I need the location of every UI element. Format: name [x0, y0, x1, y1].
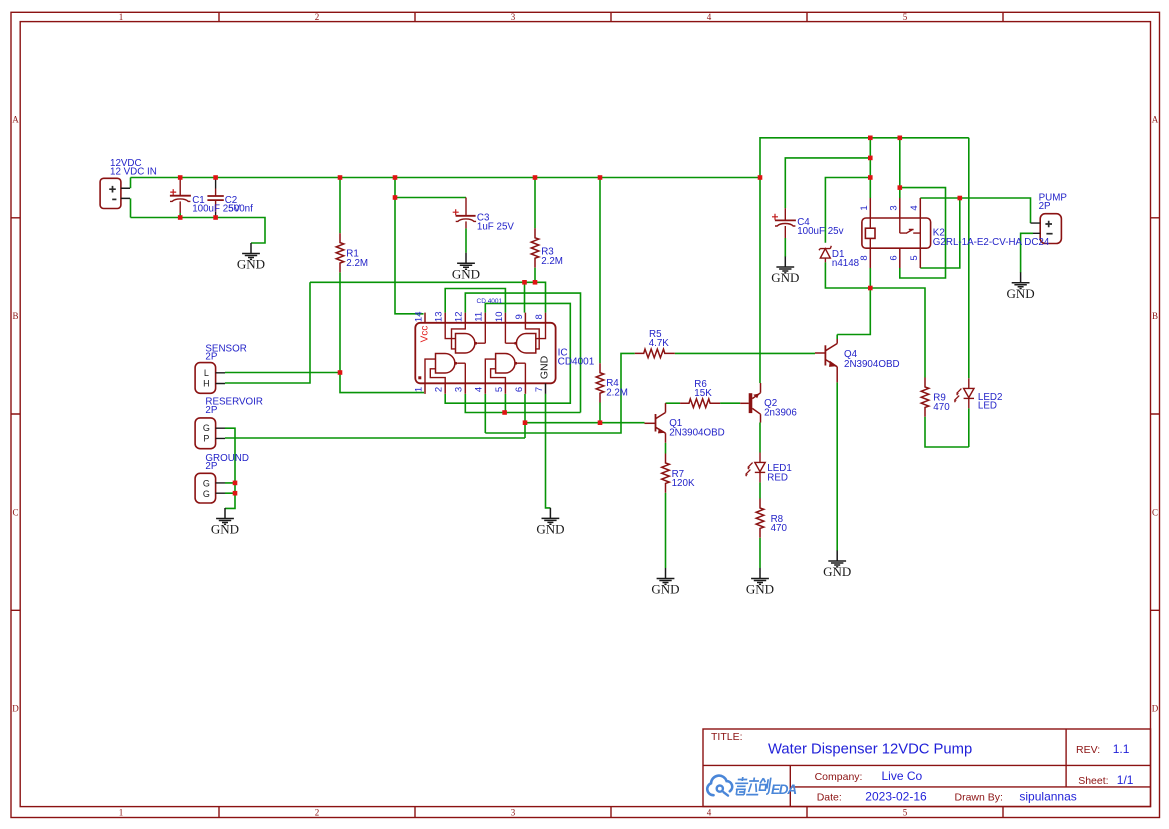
relay K2 body	[862, 198, 931, 268]
wire: pin5 loop	[920, 198, 960, 268]
svg-text:5: 5	[903, 12, 908, 22]
wire: net a across IC top to pin8	[310, 282, 546, 312]
svg-text:7: 7	[534, 387, 545, 392]
resistor R9	[921, 378, 929, 417]
svg-text:2.2M: 2.2M	[606, 388, 628, 399]
svg-text:A: A	[12, 115, 19, 125]
svg-text:A: A	[1152, 115, 1159, 125]
resistor R5 horizontal	[635, 349, 675, 358]
svg-text:5: 5	[494, 387, 505, 392]
wire: C3 feed	[395, 178, 466, 198]
junction C3 feed corner	[393, 195, 398, 200]
svg-text:6: 6	[514, 387, 525, 392]
ground (Q4)	[828, 551, 846, 567]
svg-text:Date:: Date:	[817, 791, 842, 803]
junction relay top pin1	[868, 136, 873, 141]
wire: connector minus drop	[130, 198, 132, 217]
svg-text:15K: 15K	[694, 388, 712, 399]
junction net-a R3	[533, 280, 538, 285]
resistor R8	[756, 499, 764, 538]
ground (C3)	[457, 253, 475, 269]
connector SENSOR body	[195, 363, 216, 394]
svg-text:Vcc: Vcc	[420, 326, 431, 343]
wire: net d pin11 loop	[445, 303, 570, 403]
svg-text:1: 1	[859, 205, 870, 210]
junction GROUND pin G2	[233, 491, 238, 496]
connector J1 pin stubs	[121, 188, 130, 198]
wire: SENSOR H	[225, 282, 310, 383]
transistor Q2 PNP	[740, 383, 760, 423]
svg-text:3: 3	[511, 808, 516, 818]
wire: rail up to relay top rail	[760, 138, 969, 178]
svg-text:3: 3	[511, 12, 516, 22]
svg-text:12: 12	[454, 312, 465, 323]
svg-text:Sheet:: Sheet:	[1078, 775, 1108, 787]
wire: Q2 emitter riser	[759, 178, 761, 384]
wire: C4 to GND	[784, 238, 786, 257]
svg-text:10: 10	[494, 312, 505, 323]
svg-text:6: 6	[888, 255, 899, 260]
junction net-a pin9	[522, 280, 527, 285]
svg-text:G: G	[203, 489, 210, 499]
gate G4	[485, 354, 525, 384]
wire: pin4 to pump plus	[920, 198, 1030, 223]
svg-text:1uF 25V: 1uF 25V	[477, 222, 515, 233]
connector J1 12VDC body	[100, 178, 121, 208]
left band dividers	[11, 218, 20, 611]
junction rail R4	[598, 175, 603, 180]
wire: pin9 drop	[524, 282, 526, 312]
svg-text:11: 11	[474, 312, 485, 322]
svg-text:2P: 2P	[205, 352, 217, 363]
gate G2	[505, 323, 545, 353]
junction L net R1	[338, 370, 343, 375]
svg-text:8: 8	[859, 255, 870, 260]
logo: cloud + text	[707, 776, 796, 797]
wire: L net to pin1	[340, 373, 424, 393]
svg-text:H: H	[203, 378, 210, 388]
svg-text:3: 3	[454, 387, 465, 392]
connector RESERVOIR body	[195, 418, 216, 449]
GND SYMBOLS	[216, 243, 1029, 584]
ground (IC pin7)	[542, 508, 560, 524]
svg-text:4.7K: 4.7K	[649, 338, 670, 349]
wire: Q4 collector stub	[836, 335, 838, 340]
wire: pin3-pin6 loop	[900, 188, 946, 278]
junction D1 tap	[868, 175, 873, 180]
capacitor C1	[170, 178, 191, 218]
svg-text:CD 4001: CD 4001	[477, 298, 503, 305]
capacitor C2	[207, 178, 223, 218]
junction rail R1	[338, 175, 343, 180]
svg-text:1.1: 1.1	[1113, 742, 1130, 756]
svg-text:4: 4	[707, 808, 712, 818]
svg-text:GND: GND	[651, 582, 679, 597]
pin1 marker dot	[418, 376, 421, 379]
wire: Q4 emitter to GND	[836, 382, 838, 551]
wire: relay pin3 riser	[899, 138, 901, 198]
wire: RESERVOIR P	[225, 437, 525, 439]
svg-text:2P: 2P	[1039, 201, 1051, 212]
junction bottom rail C1	[178, 215, 183, 220]
ground (R8)	[751, 568, 769, 584]
wire: D1 branch	[825, 178, 870, 243]
wire: R3 bottom	[534, 268, 536, 283]
junction Q1 base R4	[598, 420, 603, 425]
svg-text:4: 4	[474, 387, 485, 392]
svg-text:GND: GND	[1007, 286, 1035, 301]
junction net-f pin5	[502, 410, 507, 415]
svg-text:8: 8	[534, 314, 545, 319]
svg-text:GND: GND	[211, 522, 239, 537]
svg-text:2.2M: 2.2M	[541, 256, 563, 267]
svg-text:n4148: n4148	[832, 258, 860, 269]
junction GROUND pin G1	[233, 481, 238, 486]
svg-text:120K: 120K	[672, 478, 695, 489]
svg-text:TITLE:: TITLE:	[711, 731, 743, 743]
svg-text:3: 3	[888, 205, 899, 210]
junction C4 tap	[868, 156, 873, 161]
wire: R1 bottom to L net	[339, 273, 341, 373]
svg-text:14: 14	[413, 312, 424, 323]
wire: net f pin3-pin5	[465, 394, 580, 413]
svg-text:sipulannas: sipulannas	[1019, 789, 1076, 803]
wire: connector plus riser	[130, 178, 132, 189]
wire: R4 top riser	[599, 178, 601, 364]
junction Q1 base pin6	[523, 420, 528, 425]
diode D1	[819, 246, 831, 262]
junction coil node D1/R9/Q4	[868, 286, 873, 291]
connector PUMP body	[1040, 214, 1061, 244]
svg-text:2n3906: 2n3906	[764, 408, 797, 419]
capacitor C3	[453, 198, 476, 229]
wire: pin7 to GND	[546, 394, 551, 508]
junction rail Q2 emitter riser	[758, 175, 763, 180]
wire: net b pin13-pin10	[445, 289, 505, 313]
junction pin3 loop	[898, 185, 903, 190]
wire: R4 bottom	[599, 403, 601, 423]
transistor Q1	[645, 403, 666, 443]
bottom pin stubs	[425, 383, 525, 394]
svg-text:2N3904OBD: 2N3904OBD	[669, 427, 725, 438]
svg-text:L: L	[204, 368, 209, 378]
svg-text:G2RL-1A-E2-CV-HA DC24: G2RL-1A-E2-CV-HA DC24	[933, 237, 1050, 248]
gate G1	[445, 323, 485, 353]
wire: R1 top	[339, 178, 341, 234]
wire: R7 to GND	[665, 493, 667, 568]
wire: relay pin8 to Q4 collector	[837, 268, 870, 335]
ground (pump)	[1012, 272, 1030, 288]
svg-text:GND: GND	[771, 270, 799, 285]
svg-text:1: 1	[413, 387, 424, 392]
svg-text:Drawn By:: Drawn By:	[955, 791, 1003, 803]
svg-text:2N3904OBD: 2N3904OBD	[844, 359, 900, 370]
svg-text:1: 1	[119, 12, 124, 22]
junction rail C2	[213, 175, 218, 180]
wire: R6 right to Q2 base	[720, 402, 740, 404]
svg-text:1: 1	[119, 808, 124, 818]
bottom band dividers	[219, 807, 1003, 818]
svg-text:RED: RED	[767, 472, 788, 483]
svg-text:P: P	[203, 434, 209, 444]
svg-text:100uF 25v: 100uF 25v	[797, 226, 843, 237]
svg-text:470: 470	[933, 402, 950, 413]
svg-text:470: 470	[771, 523, 788, 534]
svg-text:12 VDC IN: 12 VDC IN	[110, 167, 157, 178]
svg-text:2: 2	[315, 12, 320, 22]
wire: R9 bottom to LED2 bottom	[925, 417, 969, 447]
wire: LED2 bottom	[968, 408, 970, 447]
svg-text:4: 4	[707, 12, 712, 22]
wire: pump minus to GND	[1021, 233, 1033, 272]
capacitor C4	[772, 208, 796, 238]
right band dividers	[1151, 218, 1160, 611]
svg-text:GND: GND	[539, 355, 551, 379]
LED2	[954, 378, 974, 408]
junction pump plus pin5	[958, 196, 963, 201]
transistor Q4	[815, 339, 837, 382]
junction relay top pin3	[898, 136, 903, 141]
wire: R8 to GND	[759, 538, 761, 568]
resistor R6 horizontal	[680, 399, 720, 408]
wire: C3 to GND	[465, 228, 467, 252]
svg-text:GND: GND	[452, 267, 480, 282]
resistor R7	[662, 454, 670, 493]
svg-text:2: 2	[434, 387, 445, 392]
svg-text:EDA: EDA	[771, 782, 796, 797]
wire: R3 top	[534, 178, 536, 229]
svg-text:Company:: Company:	[815, 771, 863, 783]
wire: Vcc pin14 feed	[395, 198, 424, 314]
ground (input loop)	[242, 243, 260, 259]
svg-text:5: 5	[909, 255, 920, 260]
wire: coil node to R9	[870, 288, 925, 378]
svg-text:B: B	[12, 311, 18, 321]
svg-text:2: 2	[315, 808, 320, 818]
svg-text:LED: LED	[978, 400, 997, 411]
wire: R5 right to Q4 base	[675, 352, 815, 354]
svg-text:GND: GND	[237, 257, 265, 272]
svg-text:G: G	[203, 479, 210, 489]
svg-text:9: 9	[514, 314, 525, 319]
resistor R3	[531, 228, 539, 267]
wire: pin5 stub drop	[504, 394, 506, 413]
svg-text:500nf: 500nf	[228, 203, 253, 214]
ground (R7)	[657, 568, 675, 584]
svg-text:G: G	[203, 423, 210, 433]
svg-text:2P: 2P	[205, 405, 217, 416]
wire: Q1 collector to R6	[666, 402, 681, 404]
wire: main 12V rail	[131, 177, 761, 179]
wire: R5 left to pin4 net	[485, 353, 635, 433]
wire: RESERVOIR G jog	[225, 428, 235, 508]
wire: relay pin1 riser	[869, 138, 871, 198]
junction rail R3	[533, 175, 538, 180]
svg-text:GND: GND	[746, 582, 774, 597]
resistor R4	[596, 363, 604, 402]
svg-text:Water Dispenser 12VDC Pump: Water Dispenser 12VDC Pump	[768, 741, 972, 757]
junction bottom rail C2	[213, 215, 218, 220]
LED1	[745, 453, 765, 483]
svg-text:4: 4	[909, 205, 920, 210]
TITLE BLOCK	[703, 729, 1151, 807]
svg-text:Live Co: Live Co	[882, 769, 923, 783]
gate G3	[425, 354, 465, 384]
svg-text:2P: 2P	[205, 461, 217, 472]
svg-text:CD4001: CD4001	[558, 357, 595, 368]
wire: C4 branch	[785, 158, 870, 208]
connector GROUND body	[195, 473, 216, 503]
wire: GROUND pin stubs	[225, 483, 235, 493]
svg-text:D: D	[12, 704, 19, 714]
wire: pin6 drop	[524, 394, 526, 438]
ground (C4)	[776, 257, 794, 273]
IC CD4001 body	[415, 313, 555, 394]
resistor R1	[336, 233, 344, 272]
top band dividers	[219, 12, 1003, 21]
wire: LED2 feed riser	[968, 138, 970, 378]
ground (connectors)	[216, 508, 234, 524]
wire: D1 bottom to coil node	[825, 262, 870, 288]
svg-text:D: D	[1152, 704, 1159, 714]
wire: Q1 base net g	[525, 422, 645, 424]
wire: net c pin12 loop	[465, 293, 580, 412]
svg-text:2023-02-16: 2023-02-16	[865, 789, 927, 803]
svg-text:GND: GND	[823, 564, 851, 579]
svg-text:2.2M: 2.2M	[346, 258, 368, 269]
wire: bottom return rail	[131, 218, 266, 244]
svg-text:C: C	[1152, 507, 1158, 517]
svg-text:1/1: 1/1	[1117, 773, 1134, 787]
svg-text:B: B	[1152, 311, 1158, 321]
svg-text:REV:: REV:	[1076, 744, 1100, 756]
top pin stubs	[425, 313, 546, 323]
wire: SENSOR L	[225, 372, 340, 374]
svg-text:C: C	[12, 507, 18, 517]
svg-text:GND: GND	[536, 522, 564, 537]
svg-text:13: 13	[434, 312, 445, 323]
junction rail C3 feed	[393, 175, 398, 180]
wire: Q2 collector to LED1	[759, 423, 761, 453]
svg-text:5: 5	[903, 808, 908, 818]
junction rail C1	[178, 175, 183, 180]
wire: LED1 to R8	[759, 482, 761, 498]
wire: Q1 emitter to R7	[665, 443, 667, 454]
